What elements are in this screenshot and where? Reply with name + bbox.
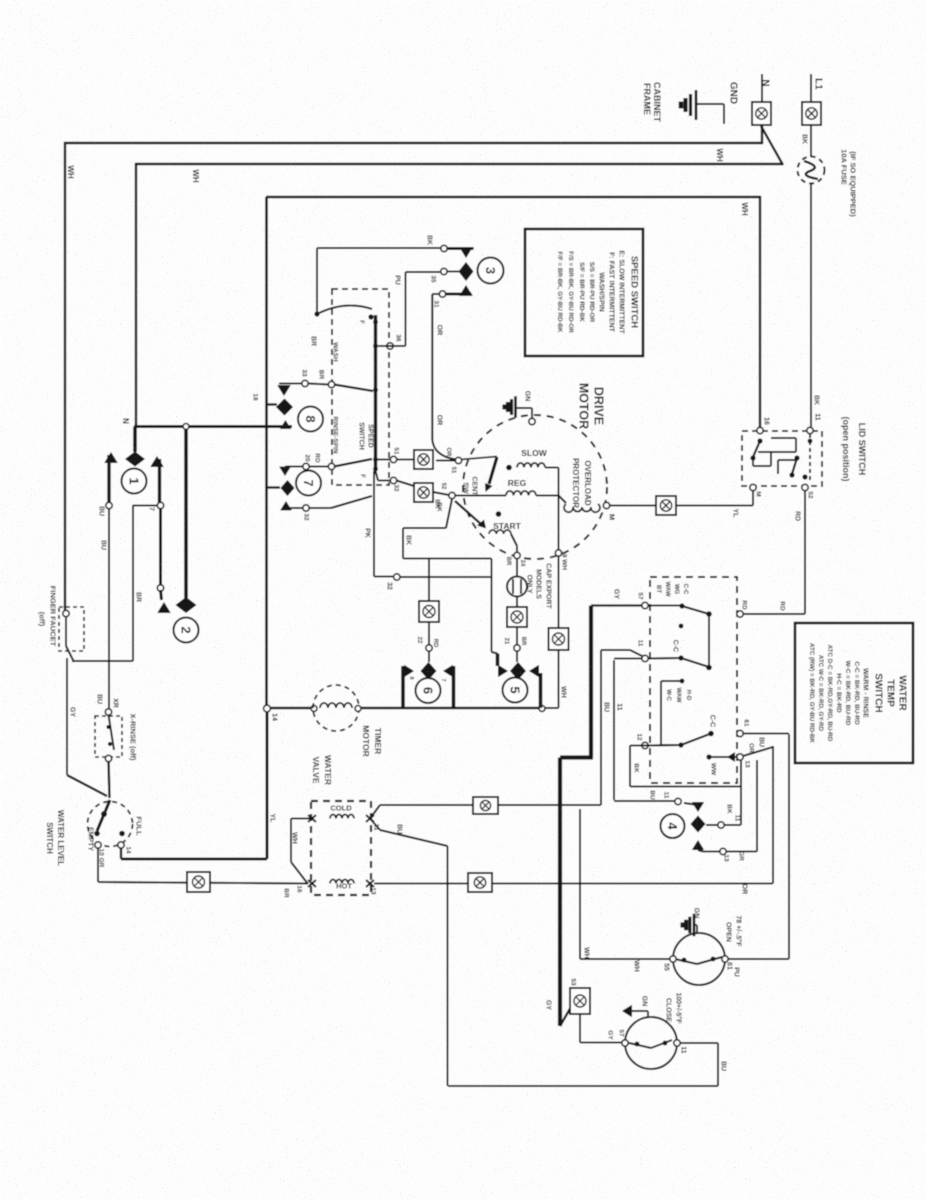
terminal empty 10 GR [95,842,101,848]
terminal timer left [311,706,317,712]
wire WH valve common left [291,818,312,820]
hot right terminal [366,880,374,887]
temp blade 11 [678,655,683,660]
terminal lid 16 [757,427,763,433]
wire WH below connector [558,650,560,708]
wire full down [120,848,122,859]
cabinet ground symbol [695,90,698,120]
bus top blade [314,311,319,316]
start blade [455,501,482,525]
wire YL lid to motor [752,491,754,506]
terminal 21 BR [514,645,520,651]
cold left terminal [308,815,316,822]
wire BK to connector3 [317,247,443,249]
lid switch box (dashed) [742,431,822,486]
wire WH third top [266,196,761,198]
wire connector to c5 [516,627,518,645]
connector inline BU [473,797,498,814]
wire M to connector [610,505,656,507]
wire BU temp 61 to riser [742,733,789,735]
terminal temp 11 [642,655,648,661]
wire YL up to timer node [266,711,269,859]
wire 7 thick down [159,508,162,586]
wire c3 mid link [447,271,459,273]
speed switch legend box [525,229,643,356]
wire GY diagonal to water level [67,775,107,796]
connector 1 diamond [125,452,145,467]
terminal XR [105,709,111,715]
terminal close left [622,1040,628,1046]
wire N box drop to outer top [761,125,763,144]
wire GY faucet down [66,658,68,775]
wire main bus vertical [265,197,268,708]
connector 2 left arrow [157,602,171,613]
connector inline WH [549,628,569,650]
blade 32 low [331,496,372,508]
connector bullet 5 [503,678,528,703]
wire c5 left feed [403,558,492,560]
terminal RD 22 [426,645,432,651]
connector bullet 8 [298,407,323,432]
terminal 9 WH [555,550,561,556]
contact dot mid [679,624,684,629]
blade 33 [334,385,373,392]
wire c6 below box [428,622,430,645]
connector 7 diamond [281,480,295,496]
terminal temp 61 [737,730,743,736]
wire WH down [558,556,560,628]
speed switch exit 32 [376,471,379,481]
wire c4 right hook [724,824,741,826]
terminal c4 right 11 [718,822,724,828]
connector 2 diamond [176,597,197,613]
connector 5 right arrow [529,665,539,677]
terminal lid BK 11 [807,427,813,433]
contact EMPTY [94,831,100,837]
terminal temp 13 [737,754,743,760]
wire BU close to corner [680,1042,718,1044]
wire 7 from connector 1 [158,459,161,503]
connector bullet 6 [416,678,441,703]
wire 12 exit loop [630,745,648,747]
water temp switch box (dashed) [650,577,737,783]
speed switch box (dashed) [332,289,389,485]
lid switch left blade [757,438,762,443]
terminal 20 link [303,463,309,469]
lid switch plunger dashed link [809,434,811,483]
cent sw moving contact [489,457,497,484]
terminal faucet top [63,610,69,616]
wire RD 20 link [285,466,303,468]
wire 33 BR link [279,383,302,385]
wire riser to temp switch 11 [600,650,602,805]
wire BU down to x-rinse [108,508,110,709]
temp blade WW [706,754,711,759]
wire ground stem [696,103,724,105]
connector 5 diamond [510,662,526,680]
wire GY into connector [560,1007,571,1026]
temp blade 12 [642,742,648,748]
wire N stem [761,74,763,102]
start blade arrow [477,520,486,529]
connector N [752,102,771,125]
wire GR to riser [726,851,757,853]
connector 7 top arrow [279,467,291,477]
wire riser to connector4 11 [613,660,615,800]
connector inline OR [468,873,492,892]
wire PK down from bus [373,471,375,577]
wire BU valve cold to temp riser [370,805,380,819]
terminal open right 61 [722,956,728,962]
terminal timer line end [539,706,545,712]
connector inline c6 [419,601,439,622]
timer motor body (dashed circle) [313,685,359,731]
terminal BU [106,502,112,508]
terminal cent sw [455,457,461,463]
overload protector coil [564,504,600,512]
slow contact dot [506,465,512,471]
connector bullet 1 [122,469,147,494]
wire OR to cent sw [432,440,456,460]
wire 11 horizontal to connector 4 [614,800,676,802]
connector GY [570,988,590,1014]
drive motor body (dashed circle) [463,415,607,559]
bus contacts [373,320,378,325]
wire to c5 diamond [516,651,518,662]
connector 7 stub [267,486,281,488]
connector bullet 7 [296,471,321,496]
terminal M [603,502,609,508]
wire faucet to BR junction [72,660,133,662]
connector 7 bottom arrow [280,501,292,511]
terminal xr bottom [105,755,111,761]
close thermostat blade [629,1043,651,1048]
wire slow to right bar [545,467,559,469]
wire GY jog [560,755,593,759]
contact FULL [119,831,125,837]
connector 3 bottom arrow [459,285,473,296]
terminal 20 contact [328,463,334,469]
connector 8 diamond [276,399,293,416]
cold solenoid coil [330,815,354,819]
wire 36 to 35 riser [378,345,406,347]
connector 6 left arrow [404,665,414,677]
node 14 timer line [264,705,271,712]
capacitor (export models) [507,577,527,597]
terminal mid 7 wire [157,585,163,591]
connector inline cap [507,607,527,627]
terminal 36 [387,343,393,349]
motor right bar [558,468,560,551]
water temp switch legend box [795,623,913,763]
wire 32 to connector box [397,481,415,487]
wire BU bottom horizontal [448,1085,718,1087]
connector 8 stub [267,403,278,405]
connector 6 diamond [421,662,437,680]
connector bullet 2 [174,618,199,643]
open thermostat blade [675,959,697,964]
lid switch inner link [771,437,796,439]
connector 3 top arrow [459,247,473,258]
wire box to motor 52 [433,492,449,495]
fuse 10A (dashed circle) [798,157,825,184]
wire c6 right arm [452,666,456,708]
wire WH outer top [64,142,763,144]
terminal close right 11 [674,1040,680,1046]
faucet blade [65,617,67,646]
wire YL horizontal full [121,858,267,861]
wire BU from connector 1 [107,455,110,504]
wire GY trunk from temp switch [591,604,645,606]
water level selector blade [97,800,110,831]
wire BR vertical [132,505,134,661]
connector bullet 4 [661,814,685,838]
connector 5 left arrow [498,665,508,677]
connector inline M [656,496,676,515]
wire empty down [97,848,99,882]
terminal open left 55 [670,956,676,962]
connector inline cent [414,450,433,469]
terminal 35 c3 [441,268,447,274]
speed switch bottom exit 51 [376,459,392,461]
wire GY to close thermostat [579,1014,581,1043]
wire WH second top [135,163,783,165]
wire overload feed [559,496,567,504]
terminal temp RD [737,611,743,617]
wire BK start branch [446,499,452,528]
wire c5 right arm [539,673,543,708]
terminal 7 [157,502,163,508]
temp blade top [679,603,684,608]
x-rinse blade [109,715,115,750]
wire BK top link [402,531,404,559]
wire 31 OR riser [432,293,440,295]
wire RD to temp switch [741,613,805,615]
wire c6 feed from above [428,560,430,602]
blade 20 [334,459,372,467]
wire BK fuse to lid switch [810,183,812,430]
wire c6 terminal to diamond [428,651,430,662]
wire c4 GR [698,850,703,852]
connector L1 [802,102,821,125]
wire GY trunk down [558,758,562,1027]
start coil [489,530,511,534]
connector 4 bottom arrow [692,840,704,850]
hot left terminal [308,880,316,887]
x-rinse contact (dashed) [95,716,122,757]
speed switch bus bar [374,315,377,471]
terminal 33 contact [328,381,334,387]
terminal 11 BU connector4 [675,798,681,804]
wire cap to connector [516,596,518,607]
terminal GR 13 [720,848,726,854]
hot solenoid coil [330,880,354,884]
close thermostat 100F body [625,1017,677,1069]
wire WH drop to lid switch [759,196,761,430]
wire L1 to fuse [810,125,812,157]
terminal 33 link [302,380,308,386]
wire OR valve to right riser [374,883,773,885]
connector 4 top arrow [692,802,704,812]
wire WH second left [135,163,137,427]
wire WH riser [579,809,581,959]
wire OR water level to valve [98,882,308,884]
wire 13 to OR riser [743,747,773,756]
reg coil [506,491,536,496]
connector bullet 3 [478,258,504,284]
wire diagonal to N connector [761,126,783,165]
water valve box (dashed) [311,801,371,895]
wire c6 left arm [401,666,405,708]
wire timer line right [361,707,540,709]
open thermostat 78F body [673,933,725,985]
terminal full 14 [118,842,124,848]
connector inline 8 left [187,872,210,892]
wire c3 top right [447,247,474,250]
connector 8 bottom arrow [280,420,291,429]
wire OR riser up [772,746,774,884]
motor ground [514,396,517,418]
wire BU valve riser down [370,819,380,831]
wire 13 down to 12 loop [740,760,742,825]
connector 1 left arrow [104,452,118,463]
terminal motor 52 [449,492,455,498]
terminal timer right [355,706,361,712]
wire 32 PK link [394,574,400,580]
terminal 9 BK [441,245,447,251]
wire WH to open thermostat [580,958,670,960]
wire c3 bottom [446,293,472,296]
wire blade feed [316,248,318,313]
cold right terminal [366,815,374,822]
terminal lid 52 out [802,484,808,490]
terminal lid M out [750,484,756,490]
connector 4 diamond [691,816,706,833]
finger faucet contact (dashed) [59,607,84,651]
wire feed connector 2 [184,429,188,598]
terminal 32 link [303,505,309,511]
wire 7 to connector 2 arrow [161,590,162,600]
slow coil [517,463,545,467]
open thermostat ground [693,914,696,937]
motor cent sw feed wire [436,460,455,462]
connector inline reg [414,483,433,502]
connector 6 right arrow [443,665,453,677]
node junction N line [183,424,189,430]
cent sw blade [461,457,497,460]
wire reg line [455,495,506,497]
terminal 31 c3 [439,291,445,297]
wire temp inner bar [708,614,710,668]
wire PU open to riser [728,958,789,960]
terminal cap top BR [514,552,520,558]
temp selector comb [680,679,685,684]
wire RD lid down [804,491,806,614]
wire feed connector 1 [133,427,137,453]
connector 8 top arrow [277,385,291,396]
terminal temp 57 top [642,602,648,608]
wire timer line left [270,707,314,709]
wire 32 link [286,507,303,509]
wire BR loop top [133,505,158,507]
wire xr to water level [109,761,110,798]
wire WH outer left [64,142,66,611]
wire N horizontal [134,425,292,428]
wire start to cap terminal [511,534,517,546]
lid switch right blade [794,455,799,460]
terminal motor top [529,418,535,424]
wire L1 stem [810,74,812,102]
close thermostat ground arrow GN [622,1005,632,1017]
connector 1 right arrow [150,456,164,467]
connector 3 diamond [459,262,474,281]
timer motor coil [320,703,352,708]
water level switch body (dashed circle) [88,802,133,847]
cent sw lower dot [496,511,502,517]
wire 51 to connector box [397,459,415,461]
